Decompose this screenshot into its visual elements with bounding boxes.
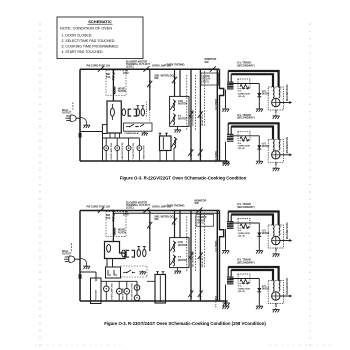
winding W1 with slash bbox=[173, 241, 175, 252]
svg-text:CAPACITOR: CAPACITOR bbox=[238, 92, 251, 95]
switch: relay contact on branch 2 bbox=[198, 111, 203, 119]
wire: dashed control line 2 bbox=[186, 216, 188, 271]
motor lamp AUX MOTOR bbox=[134, 295, 140, 301]
H.V. capacitor dashed box row 1 bbox=[238, 219, 250, 229]
svg-text:MAGNETRON: MAGNETRON bbox=[286, 84, 289, 101]
ground: hook near plug bbox=[80, 259, 87, 265]
svg-text:2. SELECT/TIME PAD TOUCHED.: 2. SELECT/TIME PAD TOUCHED. bbox=[62, 39, 116, 43]
dashed lead above plug bbox=[72, 102, 74, 111]
H.V. transformer primary core row 1 bbox=[227, 82, 234, 90]
wire: right bus B with jog bbox=[220, 69, 224, 161]
svg-text:MOTOR: MOTOR bbox=[178, 118, 187, 121]
program unit tall box bbox=[91, 278, 102, 304]
svg-text:OUTLET: OUTLET bbox=[62, 253, 72, 256]
wire: drop to TIMER MOTOR bbox=[138, 138, 140, 146]
wire: row 1 feed lower thick bbox=[231, 215, 273, 226]
switch: 1st interlock switch bbox=[188, 252, 193, 260]
svg-text:OVEN LAMP 25W: OVEN LAMP 25W bbox=[111, 283, 114, 300]
wire: drop to TIMER MOTOR bbox=[136, 281, 138, 285]
wire: transformer ground drop row 1 bbox=[225, 90, 227, 108]
wire: control box drops bbox=[106, 259, 108, 268]
switch: 2nd interlock switch bbox=[147, 221, 152, 229]
noise filter dashed enclosure bbox=[106, 71, 126, 96]
svg-text:OVEN THERMO.: OVEN THERMO. bbox=[167, 63, 186, 66]
ground: magnetron row 1 bbox=[275, 110, 277, 114]
svg-text:TIMER MOTOR: TIMER MOTOR bbox=[144, 145, 146, 160]
relay unit box bbox=[124, 123, 153, 131]
wire: fan branch vertical 2 bbox=[179, 69, 181, 96]
svg-text:1. DOOR CLOSED.: 1. DOOR CLOSED. bbox=[62, 34, 93, 38]
wire: TIMER MOTOR to bottom rail bbox=[138, 151, 140, 162]
fuse FU1 15A bbox=[113, 72, 115, 74]
H.V. diode row 1 bbox=[257, 233, 261, 237]
svg-text:SW.: SW. bbox=[154, 218, 159, 221]
capacitor C3 oval with stub bbox=[141, 109, 144, 116]
wire: left rail bbox=[79, 69, 81, 161]
wire: row 2 HV link bbox=[230, 135, 259, 137]
wire: row 1 feed upper thick bbox=[228, 71, 278, 87]
svg-text:(RY2): (RY2) bbox=[203, 80, 209, 83]
ground: diode row 1 bbox=[256, 108, 263, 112]
wire: diode drop row 2 bbox=[258, 136, 260, 160]
wire: drop to FAN MOTOR bbox=[116, 138, 118, 146]
contact marks in lower box bbox=[108, 270, 117, 275]
switch: lower contact on branch 2 bbox=[198, 149, 203, 157]
junction dots on top rail bbox=[113, 210, 202, 212]
H.V. capacitor dashed box row 2 bbox=[238, 131, 250, 141]
ground: magnetron row 2 bbox=[275, 162, 277, 166]
switch: oven lamp switch on top rail bbox=[142, 66, 150, 71]
wire: fan branch vertical 1 bbox=[174, 69, 176, 96]
wire: drop to OVEN LAMP bbox=[105, 138, 107, 146]
svg-text:Figure O-3. R-22GV/22GT Oven: Figure O-3. R-22GV/22GT Oven SChematic-C… bbox=[120, 176, 247, 181]
wire: fuse branch vertical bbox=[112, 211, 114, 243]
svg-text:H.V. TRANS: H.V. TRANS bbox=[214, 98, 217, 110]
svg-text:(.95 uF): (.95 uF) bbox=[238, 235, 245, 237]
svg-text:TT MOTOR (TTM): TT MOTOR (TTM) bbox=[132, 283, 134, 300]
svg-text:Figure O-3. R-23GT/24GT Oven: Figure O-3. R-23GT/24GT Oven SChematic-C… bbox=[104, 321, 266, 326]
wire: right bus A bbox=[216, 69, 218, 161]
wire: row 2 feed upper thick bbox=[228, 123, 278, 139]
magnetron row 1 bbox=[268, 225, 283, 248]
wire: row 1 HV link bbox=[230, 83, 259, 85]
svg-text:PW CORD FUSE 15A: PW CORD FUSE 15A bbox=[87, 206, 111, 209]
svg-text:(RY2): (RY2) bbox=[198, 222, 204, 225]
wire: left rail branch to control bbox=[80, 131, 103, 133]
ground: in relay dashed box bbox=[139, 271, 145, 275]
wire: top rail bbox=[80, 68, 220, 70]
svg-text:(SECONDARY): (SECONDARY) bbox=[237, 262, 255, 265]
wire: relay branch vertical 1 bbox=[190, 211, 192, 302]
switch: oven lamp switch on top rail bbox=[142, 208, 150, 213]
svg-text:MOTOR: MOTOR bbox=[178, 259, 187, 262]
wire: row 2 feed lower thick bbox=[231, 127, 273, 140]
wire: FAN MOTOR to bottom rail bbox=[116, 151, 118, 162]
relay label box bbox=[196, 214, 214, 226]
svg-text:H.V. TRANS: H.V. TRANS bbox=[214, 150, 217, 162]
wire: drop to TT MOTOR bbox=[126, 281, 128, 288]
svg-text:CAPACITOR: CAPACITOR bbox=[238, 232, 251, 235]
inductor L1 noise filter choke bbox=[113, 87, 115, 94]
svg-text:POWER RELAY: POWER RELAY bbox=[125, 132, 140, 135]
wire: plug to left rail bbox=[76, 117, 80, 119]
lower contact box bbox=[106, 267, 121, 278]
svg-text:1ST. INTERLOCK: 1ST. INTERLOCK bbox=[192, 250, 194, 267]
switch: interlock on fan branch bbox=[172, 76, 177, 84]
wire: transformer ground drop row 1 bbox=[225, 229, 227, 249]
wire: transformer ground drop row 2 bbox=[225, 142, 227, 160]
svg-text:OVEN THERMO.: OVEN THERMO. bbox=[167, 205, 186, 208]
wire: row 2 bus stubs bbox=[227, 267, 229, 279]
control unit box with step bbox=[105, 242, 126, 259]
svg-text:(125C): (125C) bbox=[126, 207, 134, 210]
svg-text:DIODE: DIODE bbox=[262, 93, 270, 96]
wire: row 1 HV link bbox=[230, 222, 259, 224]
wire: OVEN LAMP to bottom rail bbox=[105, 292, 107, 301]
svg-text:(.95 uF): (.95 uF) bbox=[238, 291, 245, 293]
relay label box bbox=[201, 73, 219, 85]
wire: bottom rail bbox=[80, 160, 228, 162]
wire: row 1 bus stubs bbox=[227, 71, 229, 84]
wire: TT MOTOR to bottom rail bbox=[128, 151, 130, 162]
relay coil inside control unit bbox=[110, 108, 114, 116]
relay contact symbols in dashed box bbox=[123, 270, 135, 273]
svg-text:H.V. TRANS: H.V. TRANS bbox=[214, 240, 217, 252]
wire: dashed control line 3 bbox=[195, 75, 197, 130]
ground: transformer row 1 bbox=[222, 249, 229, 253]
motor lamp TIMER MOTOR bbox=[137, 146, 142, 151]
switch: 1st interlock switch bbox=[188, 111, 193, 119]
wire: lamp row top bus bbox=[103, 137, 140, 139]
svg-text:(.95 uF): (.95 uF) bbox=[238, 148, 245, 150]
dashed lead above plug bbox=[71, 243, 73, 252]
wire: diode drop row 2 bbox=[258, 279, 260, 305]
svg-text:SCHEMATIC: SCHEMATIC bbox=[88, 19, 112, 24]
svg-text:4. START PAD TOUCHED.: 4. START PAD TOUCHED. bbox=[62, 50, 104, 54]
wire: 2nd interlock branch vertical bbox=[149, 69, 151, 110]
wire: second top rail conductor bbox=[113, 212, 219, 214]
svg-text:(.95 uF): (.95 uF) bbox=[238, 96, 245, 98]
H.V. diode row 1 bbox=[257, 93, 261, 97]
winding W2 with slash bbox=[173, 114, 175, 125]
svg-text:1ST. INTERLOCK: 1ST. INTERLOCK bbox=[192, 109, 194, 126]
ground: magnetron row 2 bbox=[275, 303, 277, 307]
wire: diode drop row 1 bbox=[258, 84, 260, 108]
wire: AUX MOTOR to bottom rail bbox=[136, 300, 138, 302]
wire: dashed control line 2 bbox=[186, 75, 188, 130]
magnetron row 1 bbox=[268, 87, 283, 110]
wire: relay branch vertical 1 bbox=[190, 69, 192, 161]
H.V. diode row 2 bbox=[257, 288, 261, 292]
svg-text:120V: 120V bbox=[123, 72, 129, 75]
wire: inductor lead bbox=[173, 148, 175, 161]
wire: transformer drops bbox=[159, 151, 161, 162]
motor lamp TT MOTOR bbox=[124, 289, 130, 295]
svg-text:CAPACITOR: CAPACITOR bbox=[238, 287, 251, 290]
svg-text:PROGRAM: PROGRAM bbox=[95, 290, 98, 301]
wire: relay branch vertical 2 bbox=[199, 211, 201, 302]
wire: dashed control line 3 bbox=[195, 216, 197, 271]
svg-text:MAGNETRON: MAGNETRON bbox=[286, 222, 289, 239]
svg-text:MOTOR: MOTOR bbox=[178, 244, 187, 247]
ground: diode row 1 bbox=[256, 249, 263, 253]
wire: dashed control line bbox=[204, 212, 206, 268]
capacitor C2 oval with stub bbox=[136, 109, 139, 116]
fuse FU1 15A bbox=[113, 213, 115, 215]
wire: left rail branch to program unit bbox=[80, 271, 96, 273]
svg-text:SW.: SW. bbox=[195, 202, 200, 205]
H.V. capacitor dashed box row 2 bbox=[238, 274, 250, 284]
ground: magnetron row 1 bbox=[275, 248, 277, 252]
svg-text:15A: 15A bbox=[106, 217, 111, 220]
wire: fan branch vertical 2 bbox=[179, 211, 181, 238]
ground: right of relay label bbox=[141, 132, 147, 136]
svg-text:RELAY RY-2: RELAY RY-2 bbox=[201, 114, 204, 126]
H.V. capacitor dashed box row 1 bbox=[238, 79, 250, 89]
relay coil inside control unit bbox=[107, 245, 111, 253]
switch: lower contact on branch 2 bbox=[198, 290, 203, 298]
wire: fan branch vertical 1 bbox=[174, 211, 176, 238]
wire: drop to TT MOTOR bbox=[128, 138, 130, 146]
switch: lower contact on branch 1 bbox=[188, 290, 193, 298]
motor lamp TIMER MOTOR bbox=[134, 285, 140, 291]
wire: row 2 feed upper thick bbox=[228, 267, 278, 281]
svg-text:DIODE: DIODE bbox=[262, 145, 270, 148]
wire: dashed control line bbox=[204, 71, 206, 127]
wire: row 1 feed upper thick bbox=[228, 212, 278, 226]
power transformer terminals bbox=[156, 272, 164, 275]
svg-text:SW.: SW. bbox=[205, 61, 210, 64]
power transformer box bbox=[155, 275, 166, 304]
svg-text:OUTLET: OUTLET bbox=[62, 112, 72, 115]
control unit box bbox=[107, 101, 121, 133]
svg-text:MAGNETRON: MAGNETRON bbox=[286, 137, 289, 154]
wire: 2nd interlock branch vertical bbox=[149, 211, 151, 252]
svg-text:120V: 120V bbox=[123, 213, 129, 216]
capacitor C3 oval with stub bbox=[143, 249, 146, 256]
svg-text:FILTER: FILTER bbox=[118, 231, 126, 234]
svg-text:RELAY RY-2: RELAY RY-2 bbox=[201, 255, 204, 267]
wire: TIMER MOTOR to bottom rail bbox=[136, 290, 138, 295]
wire: TT MOTOR to bottom rail bbox=[126, 294, 128, 301]
H.V. transformer primary core row 1 bbox=[227, 221, 234, 229]
H.V. transformer primary core row 2 bbox=[227, 134, 234, 142]
wire: drop to FAN MOTOR bbox=[118, 281, 120, 288]
motor lamp OVEN LAMP bbox=[104, 286, 110, 292]
svg-text:DIODE: DIODE bbox=[262, 232, 270, 235]
capacitor C2 oval with stub bbox=[137, 249, 140, 256]
svg-text:FILTER: FILTER bbox=[118, 90, 126, 93]
ground: diode row 2 bbox=[256, 160, 263, 164]
wire: FAN MOTOR to bottom rail bbox=[118, 294, 120, 301]
H.V. diode row 2 bbox=[257, 145, 261, 149]
wire: relay branch vertical 2 bbox=[199, 69, 201, 161]
inductor L2 with slash bbox=[174, 138, 176, 149]
wire: fuse branch vertical bbox=[112, 69, 114, 101]
wire: plug to left rail bbox=[74, 258, 80, 260]
svg-text:PW CORD FUSE 15A: PW CORD FUSE 15A bbox=[87, 65, 111, 68]
wire: right bus B with jog bbox=[220, 211, 224, 302]
svg-text:MOTOR: MOTOR bbox=[178, 103, 187, 106]
magnetron row 2 bbox=[268, 139, 283, 162]
svg-text:OVEN LAMP 25W: OVEN LAMP 25W bbox=[110, 143, 113, 160]
switch: monitor switch on top rail bbox=[195, 208, 203, 213]
ground: transformer row 2 bbox=[222, 160, 229, 164]
relay contact bracket pair bbox=[128, 109, 131, 116]
wire: drop to OVEN LAMP bbox=[105, 281, 107, 286]
switch: lower contact on branch 1 bbox=[188, 149, 193, 157]
ground: transformer row 1 bbox=[222, 108, 229, 112]
wire: row 1 bus stubs bbox=[227, 212, 229, 224]
AC plug bbox=[64, 256, 75, 263]
svg-text:DIODE: DIODE bbox=[262, 288, 270, 291]
winding W1 with slash bbox=[173, 100, 175, 111]
svg-text:(125C): (125C) bbox=[126, 66, 134, 69]
capacitor C1 oval bbox=[122, 250, 126, 257]
wire: control box drops to lamp bus bbox=[109, 133, 111, 138]
ground: under fan box bbox=[177, 126, 179, 128]
noise filter dashed enclosure bbox=[106, 212, 126, 237]
svg-text:CAPACITOR: CAPACITOR bbox=[238, 145, 251, 148]
switch: 2nd interlock switch bbox=[147, 80, 152, 88]
relay contact symbols in box bbox=[126, 124, 144, 127]
AC plug bbox=[65, 115, 76, 122]
wire: drop to AUX MOTOR bbox=[136, 281, 138, 295]
wire: transformer link to bus bbox=[147, 280, 155, 282]
H.V. transformer primary core row 2 bbox=[227, 277, 234, 285]
magnetron row 2 bbox=[268, 281, 283, 304]
wire: diode drop row 1 bbox=[258, 223, 260, 249]
svg-text:(SECONDARY): (SECONDARY) bbox=[237, 206, 255, 209]
ground: hook near plug bbox=[80, 118, 87, 124]
motor lamp FAN MOTOR bbox=[116, 289, 122, 295]
wire: bottom rail bbox=[80, 300, 228, 302]
wire: lamp row top bus bbox=[101, 280, 137, 282]
svg-text:NOTE: CONDITION OF OVEN: NOTE: CONDITION OF OVEN bbox=[60, 27, 112, 31]
note box frame bbox=[57, 17, 143, 59]
inductor L1 noise filter choke bbox=[113, 228, 115, 235]
wire: left rail bbox=[79, 211, 81, 302]
motor lamp OVEN LAMP bbox=[104, 146, 109, 151]
motor lamp FAN MOTOR bbox=[115, 146, 120, 151]
winding W2 with slash bbox=[173, 255, 175, 266]
junction blob on left rail bbox=[79, 274, 82, 279]
wire: row 2 feed lower thick bbox=[231, 270, 273, 281]
power transformer box bbox=[160, 136, 172, 151]
wire: transformer ground drop row 2 bbox=[225, 285, 227, 305]
svg-text:15A: 15A bbox=[106, 76, 111, 79]
svg-text:FAN MOTOR (FM): FAN MOTOR (FM) bbox=[121, 142, 124, 159]
fuse F0 on top rail bbox=[97, 66, 105, 71]
svg-text:H.V. TRANS: H.V. TRANS bbox=[214, 295, 217, 307]
ground: bottom rail right end bbox=[223, 302, 230, 306]
switch: monitor switch on top rail bbox=[209, 66, 217, 71]
control unit left foot bbox=[102, 125, 107, 134]
wire: row 2 HV link bbox=[230, 278, 259, 280]
fan assembly box bbox=[170, 96, 189, 126]
wire: row 1 feed lower thick bbox=[231, 74, 273, 87]
switch: relay contact on branch 2 bbox=[198, 252, 203, 260]
svg-text:TT MOTOR (TTM): TT MOTOR (TTM) bbox=[133, 143, 135, 160]
junction blob on left rail bbox=[79, 133, 82, 138]
svg-text:(SECONDARY): (SECONDARY) bbox=[237, 117, 255, 120]
wire: top rail bbox=[80, 210, 220, 212]
junction dots on top rail bbox=[113, 68, 202, 70]
svg-text:MAGNETRON: MAGNETRON bbox=[286, 278, 289, 295]
relay unit dashed box bbox=[121, 266, 148, 277]
ground: transformer row 2 bbox=[222, 305, 229, 309]
wire: row 2 bus stubs bbox=[227, 123, 229, 136]
switch: interlock on fan branch bbox=[172, 217, 177, 225]
wire: right bus A bbox=[216, 211, 218, 302]
ground: under fan box bbox=[177, 268, 179, 270]
dashed vertical by symbol row bbox=[146, 102, 148, 118]
ground: bottom rail right end bbox=[223, 162, 230, 166]
svg-text:(SECONDARY): (SECONDARY) bbox=[237, 64, 255, 67]
relay contact bracket pair bbox=[126, 250, 129, 257]
motor lamp TT MOTOR bbox=[126, 146, 131, 151]
capacitor C1 oval bbox=[122, 109, 126, 116]
fuse F0 on top rail bbox=[97, 208, 105, 213]
wire: OVEN LAMP to bottom rail bbox=[105, 151, 107, 162]
svg-text:FAN MOTOR: FAN MOTOR bbox=[122, 287, 125, 300]
fan assembly box bbox=[170, 238, 189, 268]
svg-text:3. COOKING TIME PROGRAMMED.: 3. COOKING TIME PROGRAMMED. bbox=[62, 45, 120, 49]
ground: diode row 2 bbox=[256, 305, 263, 309]
wire: interlock drop to relay box dashed bbox=[149, 110, 151, 122]
svg-text:SW.: SW. bbox=[154, 77, 159, 80]
power transformer terminals bbox=[159, 133, 168, 136]
